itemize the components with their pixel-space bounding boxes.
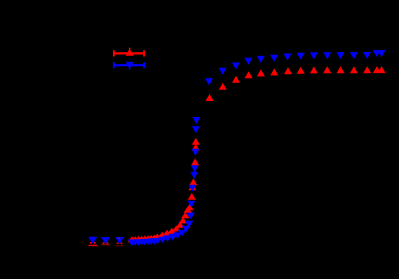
red data series (triangle-up markers) [128, 66, 386, 242]
legend entry red: triangle-up marker [126, 49, 134, 56]
blue data series (triangle-down markers) [128, 50, 386, 246]
legend entry blue: error bar with caps [114, 62, 144, 70]
data cluster x~119 [115, 237, 124, 244]
data cluster x~105 [101, 237, 110, 244]
legend entry red: error bar with caps [114, 48, 144, 57]
legend entry blue: triangle-down marker [126, 62, 134, 69]
data cluster x~93 (red ^ behind blue v) [88, 237, 97, 244]
